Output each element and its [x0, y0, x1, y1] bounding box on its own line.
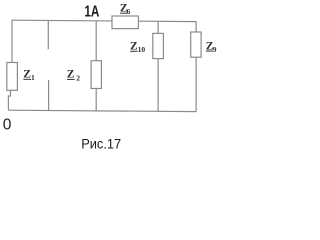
wire Z9 branch upper — [195, 22, 197, 33]
wire Z2 branch lower — [95, 89, 97, 112]
label Z9 — [206, 40, 217, 54]
impedance Z2 — [91, 61, 101, 89]
impedance Z9 — [191, 32, 201, 57]
svg-text:2: 2 — [76, 73, 80, 82]
svg-text:6: 6 — [127, 7, 131, 16]
svg-text:9: 9 — [213, 45, 217, 54]
wire Z10 branch upper — [157, 21, 159, 33]
svg-text:Z: Z — [23, 69, 31, 81]
svg-text:1A: 1A — [84, 4, 99, 21]
wire open stub upper (at x=48) — [47, 21, 49, 50]
label Z1 — [23, 69, 35, 83]
svg-text:1: 1 — [31, 73, 35, 82]
label Z10 — [130, 41, 145, 55]
wire Z9 branch lower — [195, 57, 197, 111]
svg-text:0: 0 — [3, 116, 12, 133]
wire Z2 branch upper — [95, 21, 97, 61]
wire left vertical (node 1A to Z1) — [11, 20, 13, 63]
caption Рис.17 — [81, 135, 121, 151]
wire open stub lower (at x=48) — [48, 80, 50, 111]
label Z2 — [67, 69, 81, 83]
wire Z1 to bottom bus (jogged) — [8, 90, 10, 110]
impedance Z1 — [7, 63, 18, 91]
svg-text:Z: Z — [67, 69, 75, 81]
impedance Z10 — [153, 33, 164, 58]
label Z6 — [120, 3, 131, 17]
svg-text:Рис.17: Рис.17 — [81, 135, 121, 151]
wire bottom bus — [8, 110, 196, 111]
node 1A label — [84, 4, 99, 21]
impedance Z6 (series, horizontal) — [112, 16, 138, 29]
node 0 label — [3, 116, 12, 133]
wire top bus — [12, 20, 197, 21]
svg-text:10: 10 — [138, 45, 146, 54]
wire Z10 branch lower — [157, 59, 159, 112]
